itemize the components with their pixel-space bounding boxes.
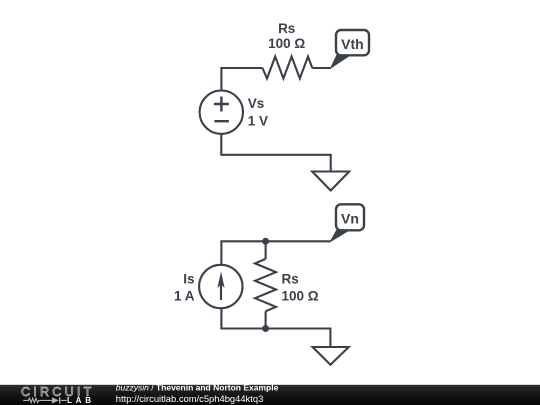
- svg-text:CIRCUIT: CIRCUIT: [21, 385, 94, 399]
- wire junction to resistor Rs (bottom circuit): [265, 241, 267, 259]
- node flag Vn pointer: [330, 230, 350, 242]
- wire resistor bottom to rail: [265, 311, 267, 328]
- svg-text:1 A: 1 A: [174, 288, 195, 303]
- CircuitLab logo diode: [52, 397, 59, 403]
- svg-text:Is: Is: [183, 272, 194, 287]
- resistor Rs (bottom circuit, vertical): [255, 259, 276, 311]
- CircuitLab logo waveform: [23, 398, 67, 402]
- svg-text:buzzysin / Thevenin and Norton: buzzysin / Thevenin and Norton Example: [116, 382, 279, 392]
- wire bottom rail (bottom circuit): [221, 308, 330, 347]
- footer bar: [0, 385, 540, 405]
- svg-text:Vth: Vth: [341, 36, 364, 52]
- wire from Vs bottom to ground (top circuit): [221, 134, 330, 172]
- junction node (bottom rail): [262, 325, 269, 332]
- current source Is: [199, 265, 242, 308]
- resistor Rs (top circuit): [263, 57, 313, 79]
- node flag Vth pointer: [331, 54, 352, 68]
- Vs minus sign: [214, 120, 229, 122]
- svg-text:100 Ω: 100 Ω: [282, 288, 319, 303]
- voltage source Vs: [200, 91, 243, 134]
- svg-text:1 V: 1 V: [248, 114, 268, 129]
- svg-text:Rs: Rs: [278, 21, 295, 36]
- Vs plus sign: [214, 97, 229, 112]
- svg-text:100 Ω: 100 Ω: [268, 36, 305, 51]
- ground symbol (top circuit): [312, 172, 349, 191]
- wire from Rs to Vth flag: [312, 67, 330, 69]
- node flag Vn box: [336, 204, 364, 230]
- svg-text:Vn: Vn: [341, 210, 359, 226]
- svg-text:http://circuitlab.com/c5ph4bg4: http://circuitlab.com/c5ph4bg44ktq3: [116, 393, 263, 404]
- node flag Vth box: [336, 30, 369, 55]
- wire top rail (bottom circuit): [221, 241, 330, 265]
- svg-text:Rs: Rs: [282, 272, 299, 287]
- wire from Vs top to resistor Rs: [221, 68, 262, 91]
- svg-text:LAB: LAB: [67, 396, 91, 405]
- svg-text:Vs: Vs: [248, 96, 265, 111]
- Is arrow: [220, 276, 222, 300]
- junction node (top rail): [262, 238, 269, 245]
- ground symbol (bottom circuit): [313, 347, 349, 365]
- Is arrow head: [217, 272, 224, 289]
